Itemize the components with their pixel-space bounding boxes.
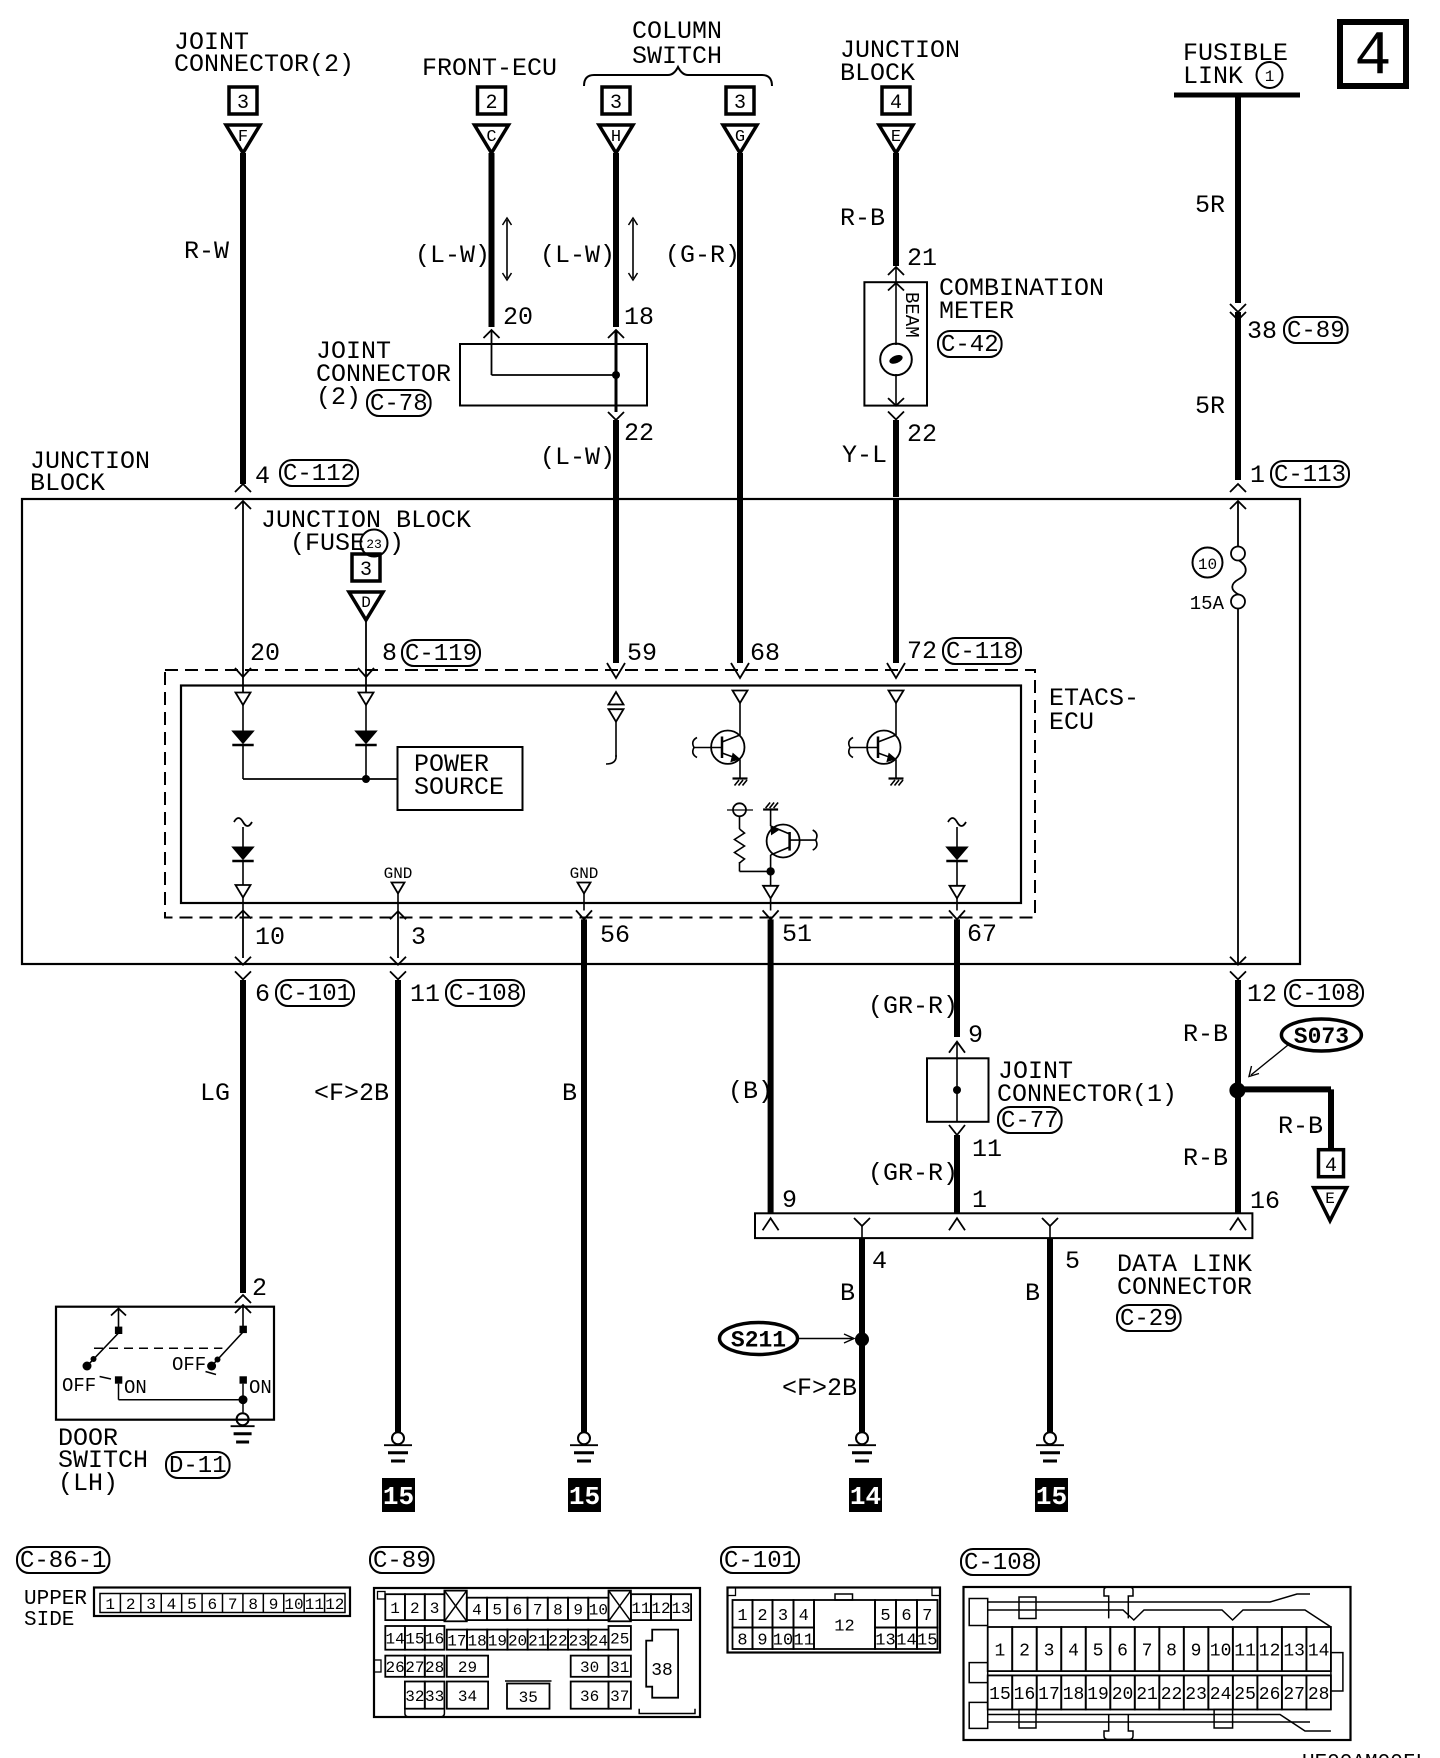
svg-text:28: 28	[425, 1659, 444, 1677]
svg-text:4: 4	[472, 1602, 482, 1620]
svg-text:OFF: OFF	[172, 1354, 206, 1376]
svg-text:6: 6	[513, 1602, 523, 1620]
svg-text:C-101: C-101	[279, 981, 351, 1008]
svg-text:G: G	[735, 128, 745, 147]
svg-text:UE90AM00FL: UE90AM00FL	[1302, 1752, 1428, 1758]
svg-text:1: 1	[737, 1607, 747, 1626]
svg-text:72: 72	[907, 637, 937, 666]
svg-text:UPPER: UPPER	[24, 1588, 87, 1611]
svg-text:36: 36	[580, 1688, 599, 1706]
svg-text:BLOCK: BLOCK	[30, 469, 105, 498]
svg-text:22: 22	[548, 1632, 567, 1650]
svg-text:31: 31	[610, 1659, 629, 1677]
svg-text:H: H	[611, 128, 621, 147]
svg-text:2: 2	[757, 1607, 767, 1626]
svg-text:B: B	[840, 1279, 855, 1308]
svg-text:4: 4	[872, 1247, 887, 1276]
svg-text:11: 11	[1234, 1642, 1256, 1662]
svg-text:GND: GND	[570, 865, 599, 883]
svg-text:10: 10	[1210, 1642, 1232, 1662]
svg-text:CONNECTOR: CONNECTOR	[1117, 1273, 1252, 1302]
svg-text:1: 1	[1250, 461, 1265, 490]
svg-text:SOURCE: SOURCE	[414, 773, 504, 802]
svg-text:C-89: C-89	[373, 1548, 431, 1575]
svg-text:38: 38	[651, 1661, 673, 1681]
svg-text:20: 20	[250, 639, 280, 668]
svg-text:32: 32	[405, 1688, 424, 1706]
svg-text:11: 11	[410, 980, 440, 1009]
svg-text:15: 15	[405, 1631, 424, 1649]
svg-text:METER: METER	[939, 297, 1014, 326]
svg-text:8: 8	[1166, 1642, 1177, 1662]
svg-text:3: 3	[411, 923, 426, 952]
svg-text:17: 17	[447, 1632, 466, 1650]
svg-text:15: 15	[917, 1631, 937, 1650]
svg-text:9: 9	[573, 1602, 583, 1620]
svg-text:27: 27	[1283, 1685, 1305, 1705]
svg-text:16: 16	[425, 1631, 444, 1649]
svg-text:GND: GND	[384, 865, 413, 883]
svg-text:11: 11	[794, 1631, 814, 1650]
svg-text:4: 4	[1325, 1155, 1337, 1178]
svg-text:15: 15	[383, 1482, 414, 1512]
svg-text:9: 9	[782, 1186, 797, 1215]
svg-text:13: 13	[671, 1600, 690, 1618]
svg-text:51: 51	[782, 920, 812, 949]
svg-text:6: 6	[207, 1596, 217, 1614]
svg-text:10: 10	[284, 1596, 303, 1614]
svg-text:56: 56	[600, 921, 630, 950]
svg-text:11: 11	[305, 1596, 324, 1614]
svg-text:D-11: D-11	[169, 1453, 227, 1480]
svg-text:30: 30	[580, 1659, 599, 1677]
svg-text:12: 12	[651, 1600, 670, 1618]
svg-text:7: 7	[922, 1607, 932, 1626]
svg-text:20: 20	[503, 303, 533, 332]
svg-text:25: 25	[610, 1631, 629, 1649]
svg-text:C-108: C-108	[964, 1550, 1036, 1577]
svg-text:7: 7	[533, 1602, 543, 1620]
svg-text:(2): (2)	[316, 383, 361, 412]
svg-text:8: 8	[382, 639, 397, 668]
svg-text:13: 13	[875, 1631, 895, 1650]
svg-text:Y-L: Y-L	[842, 441, 887, 470]
svg-text:2: 2	[410, 1600, 420, 1618]
svg-text:22: 22	[624, 419, 654, 448]
svg-text:35: 35	[519, 1689, 538, 1707]
svg-text:14: 14	[896, 1631, 916, 1650]
svg-text:5: 5	[1093, 1642, 1104, 1662]
svg-text:4: 4	[1354, 21, 1391, 92]
svg-text:13: 13	[1283, 1642, 1305, 1662]
svg-text:10: 10	[255, 923, 285, 952]
svg-text:14: 14	[1308, 1642, 1330, 1662]
svg-text:5: 5	[880, 1607, 890, 1626]
svg-text:SIDE: SIDE	[24, 1609, 74, 1632]
svg-text:24: 24	[1210, 1685, 1232, 1705]
svg-text:18: 18	[624, 303, 654, 332]
svg-text:12: 12	[1247, 980, 1277, 1009]
svg-text:15: 15	[1036, 1482, 1067, 1512]
svg-text:25: 25	[1234, 1685, 1256, 1705]
svg-text:8: 8	[248, 1596, 258, 1614]
svg-text:3: 3	[1044, 1642, 1055, 1662]
svg-text:7: 7	[1142, 1642, 1153, 1662]
svg-text:21: 21	[907, 244, 937, 273]
svg-text:4: 4	[890, 92, 902, 115]
svg-text:C-42: C-42	[941, 332, 999, 359]
svg-text:7: 7	[228, 1596, 238, 1614]
svg-text:11: 11	[631, 1600, 650, 1618]
svg-text:S073: S073	[1294, 1024, 1349, 1050]
svg-text:(B): (B)	[728, 1077, 773, 1106]
svg-text:17: 17	[1038, 1685, 1060, 1705]
svg-text:20: 20	[508, 1632, 527, 1650]
svg-text:C-89: C-89	[1287, 318, 1345, 345]
svg-text:2: 2	[126, 1596, 136, 1614]
svg-text:3: 3	[734, 92, 746, 115]
svg-text:12: 12	[325, 1596, 344, 1614]
svg-text:14: 14	[385, 1631, 404, 1649]
svg-text:SWITCH: SWITCH	[632, 42, 722, 71]
svg-text:3: 3	[360, 559, 372, 582]
svg-text:18: 18	[1063, 1685, 1085, 1705]
svg-text:23: 23	[366, 537, 382, 552]
svg-text:(L-W): (L-W)	[415, 241, 490, 270]
svg-text:9: 9	[968, 1021, 983, 1050]
svg-text:8: 8	[737, 1631, 747, 1650]
svg-text:9: 9	[1191, 1642, 1202, 1662]
svg-text:12: 12	[1259, 1642, 1281, 1662]
svg-text:16: 16	[1250, 1187, 1280, 1216]
svg-text:ON: ON	[124, 1377, 147, 1399]
svg-text:D: D	[361, 594, 371, 612]
svg-text:22: 22	[1161, 1685, 1183, 1705]
svg-text:(L-W): (L-W)	[540, 241, 615, 270]
svg-text:E: E	[891, 128, 901, 147]
svg-text:3: 3	[237, 92, 249, 115]
svg-text:6: 6	[255, 980, 270, 1009]
svg-text:ON: ON	[249, 1377, 272, 1399]
svg-text:5: 5	[1065, 1247, 1080, 1276]
svg-text:C: C	[486, 128, 496, 147]
svg-text:10: 10	[773, 1631, 793, 1650]
svg-text:38: 38	[1247, 317, 1277, 346]
svg-text:3: 3	[610, 92, 622, 115]
svg-text:68: 68	[750, 639, 780, 668]
svg-text:34: 34	[458, 1688, 477, 1706]
svg-text:CONNECTOR(2): CONNECTOR(2)	[174, 50, 354, 79]
svg-text:B: B	[562, 1079, 577, 1108]
svg-text:1: 1	[105, 1596, 115, 1614]
svg-text:15A: 15A	[1190, 593, 1225, 615]
svg-text:C-118: C-118	[946, 639, 1018, 666]
svg-text:C-108: C-108	[449, 981, 521, 1008]
svg-text:S211: S211	[731, 1328, 786, 1354]
svg-text:C-29: C-29	[1120, 1306, 1178, 1333]
svg-text:1: 1	[390, 1600, 400, 1618]
svg-text:(G-R): (G-R)	[665, 241, 740, 270]
svg-text:28: 28	[1308, 1685, 1330, 1705]
svg-text:C-101: C-101	[724, 1548, 796, 1575]
svg-text:12: 12	[834, 1618, 854, 1637]
svg-text:9: 9	[269, 1596, 279, 1614]
svg-text:C-119: C-119	[405, 641, 477, 668]
svg-text:8: 8	[553, 1602, 563, 1620]
svg-text:ECU: ECU	[1049, 708, 1094, 737]
svg-text:(LH): (LH)	[58, 1469, 118, 1498]
svg-text:6: 6	[901, 1607, 911, 1626]
svg-text:R-B: R-B	[1183, 1020, 1228, 1049]
svg-text:4: 4	[799, 1607, 809, 1626]
svg-text:1: 1	[995, 1642, 1006, 1662]
svg-text:(L-W): (L-W)	[540, 443, 615, 472]
svg-text:9: 9	[757, 1631, 767, 1650]
svg-text:2: 2	[1019, 1642, 1030, 1662]
svg-text:23: 23	[1185, 1685, 1207, 1705]
svg-text:33: 33	[425, 1688, 444, 1706]
svg-text:19: 19	[1087, 1685, 1109, 1705]
svg-text:R-B: R-B	[1183, 1144, 1228, 1173]
svg-text:6: 6	[1117, 1642, 1128, 1662]
svg-text:15: 15	[569, 1482, 600, 1512]
svg-text:21: 21	[528, 1632, 547, 1650]
svg-text:16: 16	[1014, 1685, 1036, 1705]
svg-text:F: F	[238, 128, 248, 147]
svg-text:4: 4	[255, 462, 270, 491]
svg-text:26: 26	[1259, 1685, 1281, 1705]
svg-text:20: 20	[1112, 1685, 1134, 1705]
svg-text:37: 37	[610, 1688, 629, 1706]
svg-text:24: 24	[589, 1632, 608, 1650]
svg-text:29: 29	[458, 1659, 477, 1677]
svg-text:2: 2	[485, 92, 497, 115]
svg-text:14: 14	[850, 1482, 881, 1512]
svg-text:R-W: R-W	[184, 237, 229, 266]
svg-text:C-112: C-112	[283, 461, 355, 488]
svg-text:67: 67	[967, 920, 997, 949]
svg-text:C-77: C-77	[1001, 1108, 1059, 1135]
svg-text:59: 59	[627, 639, 657, 668]
svg-text:B: B	[1025, 1279, 1040, 1308]
svg-text:4: 4	[1068, 1642, 1079, 1662]
svg-text:1: 1	[1265, 68, 1275, 86]
svg-text:C-86-1: C-86-1	[20, 1548, 106, 1575]
svg-text:15: 15	[989, 1685, 1011, 1705]
svg-text:LG: LG	[200, 1079, 230, 1108]
svg-text:1: 1	[972, 1186, 987, 1215]
svg-text:CONNECTOR(1): CONNECTOR(1)	[997, 1080, 1177, 1109]
svg-text:4: 4	[167, 1596, 177, 1614]
svg-text:2: 2	[252, 1274, 267, 1303]
svg-text:<F>2B: <F>2B	[314, 1079, 389, 1108]
svg-text:<F>2B: <F>2B	[782, 1374, 857, 1403]
svg-text:BEAM: BEAM	[900, 292, 922, 338]
svg-text:3: 3	[146, 1596, 156, 1614]
svg-text:5R: 5R	[1195, 191, 1225, 220]
svg-text:BLOCK: BLOCK	[840, 59, 915, 88]
svg-text:18: 18	[468, 1632, 487, 1650]
svg-text:11: 11	[972, 1135, 1002, 1164]
svg-text:19: 19	[488, 1632, 507, 1650]
svg-text:10: 10	[1198, 556, 1217, 574]
svg-text:R-B: R-B	[840, 204, 885, 233]
svg-text:10: 10	[589, 1602, 608, 1620]
svg-text:5: 5	[492, 1602, 502, 1620]
svg-text:3: 3	[778, 1607, 788, 1626]
svg-text:21: 21	[1136, 1685, 1158, 1705]
svg-text:E: E	[1325, 1190, 1335, 1208]
svg-text:22: 22	[907, 420, 937, 449]
svg-text:26: 26	[385, 1659, 404, 1677]
svg-text:C-78: C-78	[370, 391, 428, 418]
svg-text:3: 3	[430, 1600, 440, 1618]
svg-text:OFF: OFF	[62, 1375, 96, 1397]
svg-text:27: 27	[405, 1659, 424, 1677]
svg-text:(GR-R): (GR-R)	[868, 992, 958, 1021]
svg-text:R-B: R-B	[1278, 1112, 1323, 1141]
svg-text:): )	[389, 529, 404, 558]
svg-text:5: 5	[187, 1596, 197, 1614]
svg-text:LINK: LINK	[1183, 62, 1243, 91]
svg-text:C-108: C-108	[1288, 981, 1360, 1008]
svg-text:C-113: C-113	[1274, 462, 1346, 489]
svg-text:23: 23	[569, 1632, 588, 1650]
svg-text:FRONT-ECU: FRONT-ECU	[422, 54, 557, 83]
svg-text:5R: 5R	[1195, 392, 1225, 421]
svg-text:(GR-R): (GR-R)	[868, 1159, 958, 1188]
